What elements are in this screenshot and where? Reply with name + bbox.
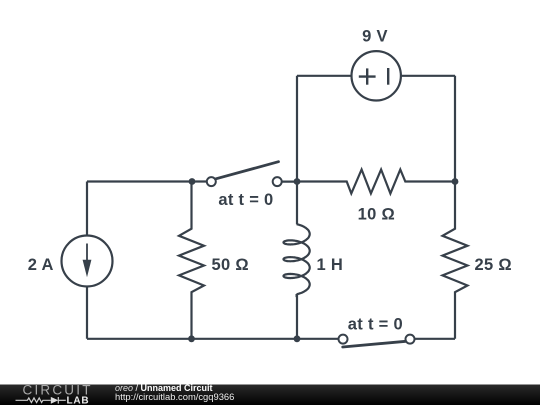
svg-text:1 H: 1 H	[317, 256, 344, 274]
svg-text:10 Ω: 10 Ω	[358, 206, 395, 224]
svg-text:50 Ω: 50 Ω	[212, 256, 249, 274]
svg-text:2 A: 2 A	[28, 256, 54, 274]
svg-text:http://circuitlab.com/cgq9366: http://circuitlab.com/cgq9366	[115, 391, 234, 402]
svg-text:LAB: LAB	[67, 395, 90, 405]
svg-text:9 V: 9 V	[362, 28, 388, 46]
svg-text:25 Ω: 25 Ω	[475, 256, 512, 274]
svg-text:at t = 0: at t = 0	[348, 316, 403, 334]
svg-text:at t = 0: at t = 0	[218, 191, 273, 209]
